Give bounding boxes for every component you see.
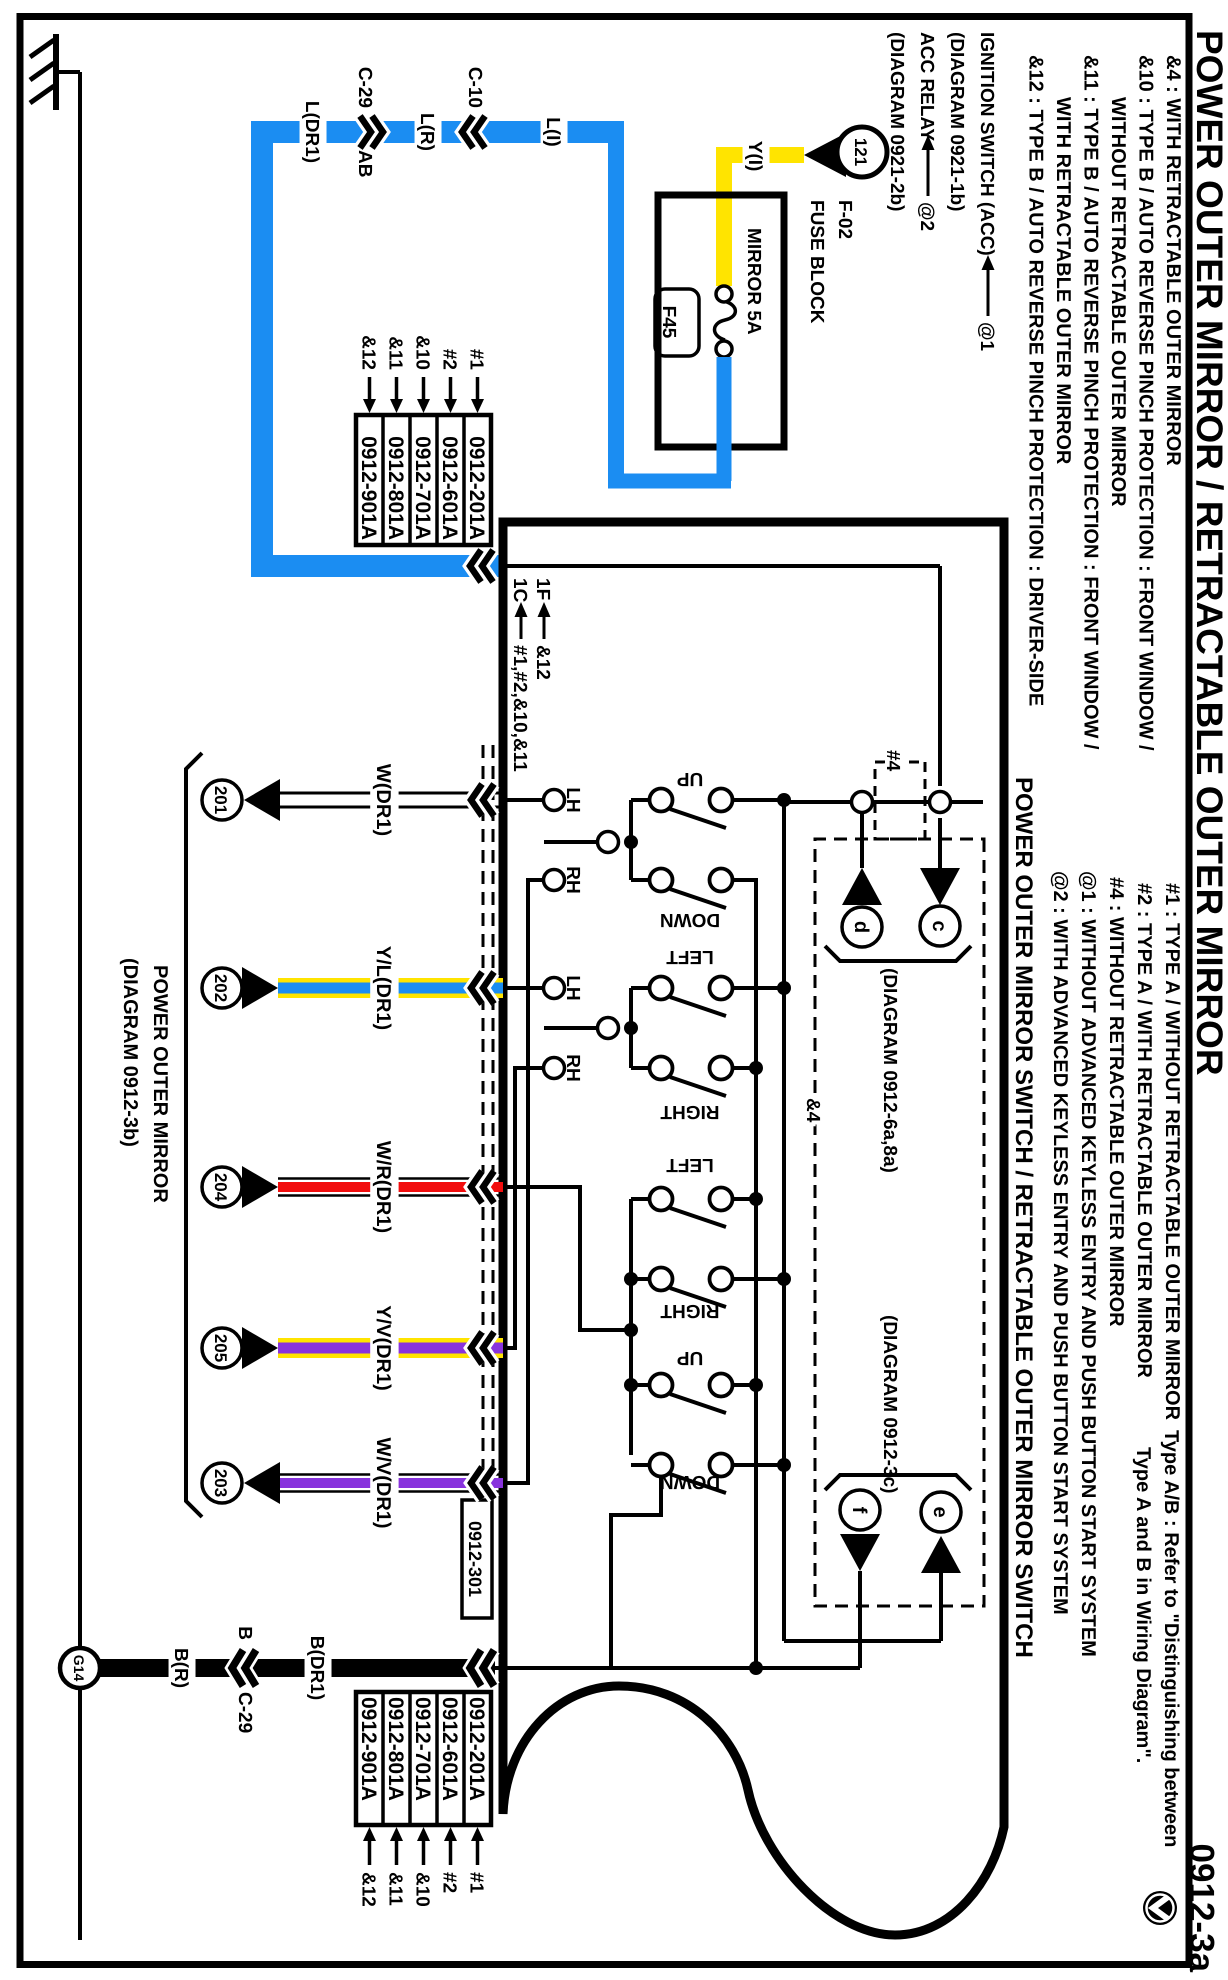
svg-text:UP: UP (676, 768, 703, 789)
svg-text:0912-601A: 0912-601A (438, 436, 461, 540)
svg-text:0912-3a: 0912-3a (1182, 1844, 1221, 1973)
svg-text:C-10: C-10 (464, 67, 485, 108)
svg-text:ACC RELAY: ACC RELAY (916, 32, 937, 141)
svg-text:&11 : TYPE B / AUTO REVERSE PI: &11 : TYPE B / AUTO REVERSE PINCH PROTEC… (1080, 55, 1102, 750)
svg-text:DOWN: DOWN (660, 909, 720, 930)
svg-text:G14: G14 (71, 1655, 87, 1682)
svg-text:&12: &12 (532, 645, 553, 680)
svg-text:(DIAGRAM 0912-3b): (DIAGRAM 0912-3b) (119, 958, 141, 1147)
svg-text:121: 121 (851, 138, 870, 166)
svg-text:RIGHT: RIGHT (660, 1300, 720, 1321)
svg-text:IGNITION SWITCH (ACC): IGNITION SWITCH (ACC) (976, 32, 997, 256)
svg-text:0912-201A: 0912-201A (465, 1697, 488, 1801)
svg-text:#4: #4 (882, 750, 903, 772)
svg-text:&12 : TYPE B / AUTO REVERSE PI: &12 : TYPE B / AUTO REVERSE PINCH PROTEC… (1025, 55, 1047, 706)
svg-text:FUSE BLOCK: FUSE BLOCK (806, 200, 827, 324)
svg-text:POWER OUTER MIRROR SWITCH / RE: POWER OUTER MIRROR SWITCH / RETRACTABLE … (1010, 777, 1037, 1658)
svg-text:L(DR1): L(DR1) (301, 101, 322, 163)
svg-text:0912-801A: 0912-801A (384, 1697, 407, 1801)
svg-text:(DIAGRAM 0912-3c): (DIAGRAM 0912-3c) (879, 1315, 900, 1493)
svg-text:@1: @1 (976, 322, 997, 352)
svg-text:W(DR1): W(DR1) (372, 764, 394, 836)
svg-text:203: 203 (211, 1469, 230, 1497)
svg-text:&11: &11 (385, 1872, 406, 1906)
svg-text:@2: @2 (916, 202, 937, 231)
svg-text:0912-801A: 0912-801A (384, 436, 407, 540)
svg-text:1F: 1F (532, 578, 553, 600)
svg-text:W/V(DR1): W/V(DR1) (372, 1437, 394, 1528)
svg-text:MIRROR 5A: MIRROR 5A (743, 228, 764, 335)
svg-text:DOWN: DOWN (660, 1471, 720, 1492)
svg-text:B(R): B(R) (170, 1648, 191, 1688)
svg-text:@1 : WITHOUT ADVANCED KEYLESS: @1 : WITHOUT ADVANCED KEYLESS ENTRY AND … (1077, 871, 1099, 1657)
svg-text:WITHOUT RETRACTABLE OUTER MIRR: WITHOUT RETRACTABLE OUTER MIRROR (1107, 97, 1129, 507)
svg-text:(DIAGRAM 0921-1b): (DIAGRAM 0921-1b) (946, 32, 967, 211)
svg-text:205: 205 (211, 1334, 230, 1362)
svg-text:Y/V(DR1): Y/V(DR1) (372, 1305, 394, 1391)
svg-text:0912-601A: 0912-601A (438, 1697, 461, 1801)
svg-text:&10 : TYPE B / AUTO REVERSE PI: &10 : TYPE B / AUTO REVERSE PINCH PROTEC… (1135, 55, 1157, 751)
svg-text:d: d (850, 921, 872, 933)
svg-text:&4 : WITH RETRACTABLE OUTER MI: &4 : WITH RETRACTABLE OUTER MIRROR (1162, 55, 1184, 466)
svg-text:L(I): L(I) (542, 117, 563, 147)
svg-text:202: 202 (211, 974, 230, 1002)
svg-text:F-02: F-02 (834, 200, 855, 239)
svg-text:#1: #1 (466, 1872, 487, 1894)
svg-text:0912-701A: 0912-701A (411, 1697, 434, 1801)
svg-text:#4 : WITHOUT RETRACTABLE OUTER: #4 : WITHOUT RETRACTABLE OUTER MIRROR (1105, 877, 1127, 1327)
svg-text:B(DR1): B(DR1) (306, 1636, 327, 1700)
svg-text:RIGHT: RIGHT (660, 1101, 720, 1122)
svg-text:POWER OUTER MIRROR / RETRACTAB: POWER OUTER MIRROR / RETRACTABLE OUTER M… (1189, 30, 1228, 1076)
svg-text:LEFT: LEFT (666, 946, 714, 967)
svg-text:204: 204 (211, 1173, 230, 1202)
svg-text:0912-701A: 0912-701A (411, 436, 434, 540)
svg-text:201: 201 (211, 786, 230, 814)
svg-text:F45: F45 (658, 306, 679, 339)
svg-text:#2: #2 (439, 1872, 460, 1893)
svg-text:0912-901A: 0912-901A (357, 1697, 380, 1801)
svg-text:&12: &12 (358, 1872, 379, 1907)
svg-text:RH: RH (562, 1054, 583, 1081)
svg-text:#2 : TYPE A / WITH RETRACTABLE: #2 : TYPE A / WITH RETRACTABLE OUTER MIR… (1133, 883, 1155, 1378)
svg-text:&11: &11 (385, 336, 406, 370)
svg-text:&10: &10 (412, 335, 433, 370)
svg-text:C-29: C-29 (354, 67, 375, 108)
svg-text:LH: LH (562, 975, 583, 1000)
svg-text:WITH RETRACTABLE OUTER MIRROR: WITH RETRACTABLE OUTER MIRROR (1052, 97, 1074, 465)
svg-text:&10: &10 (412, 1872, 433, 1907)
svg-text:LEFT: LEFT (666, 1154, 714, 1175)
svg-text:UP: UP (676, 1347, 703, 1368)
svg-text:&4: &4 (802, 1098, 823, 1123)
svg-text:0912-901A: 0912-901A (357, 436, 380, 540)
svg-text:&12: &12 (358, 335, 379, 370)
svg-text:W/R(DR1): W/R(DR1) (372, 1141, 394, 1233)
svg-text:Y/L(DR1): Y/L(DR1) (372, 946, 394, 1030)
svg-text:1C: 1C (509, 578, 530, 603)
svg-text:0912-301: 0912-301 (465, 1521, 485, 1597)
svg-text:(DIAGRAM 0912-6a,8a): (DIAGRAM 0912-6a,8a) (879, 968, 900, 1173)
svg-text:Type A/B : Refer to "Distingui: Type A/B : Refer to "Distinguishing betw… (1160, 1430, 1182, 1847)
svg-text:B: B (234, 1626, 255, 1640)
svg-text:RH: RH (562, 866, 583, 893)
svg-text:POWER OUTER MIRROR: POWER OUTER MIRROR (149, 965, 171, 1203)
svg-text:@2 : WITH ADVANCED KEYLESS ENT: @2 : WITH ADVANCED KEYLESS ENTRY AND PUS… (1049, 871, 1071, 1615)
svg-text:Type A and B in Wiring Diagram: Type A and B in Wiring Diagram". (1132, 1447, 1154, 1763)
svg-text:e: e (929, 1506, 951, 1517)
svg-text:AB: AB (354, 150, 375, 177)
svg-text:f: f (848, 1507, 870, 1514)
svg-text:c: c (928, 920, 950, 931)
svg-text:LH: LH (562, 787, 583, 812)
svg-text:#1,#2,&10,&11: #1,#2,&10,&11 (509, 645, 530, 772)
svg-text:(DIAGRAM 0921-2b): (DIAGRAM 0921-2b) (886, 32, 907, 211)
svg-text:C-29: C-29 (234, 1692, 255, 1733)
svg-text:#1: #1 (466, 349, 487, 371)
svg-text:#2: #2 (439, 349, 460, 370)
svg-text:L(R): L(R) (416, 113, 437, 151)
svg-text:0912-201A: 0912-201A (465, 436, 488, 540)
svg-text:Y(I): Y(I) (744, 141, 765, 172)
svg-text:#1 : TYPE A / WITHOUT RETRACTA: #1 : TYPE A / WITHOUT RETRACTABLE OUTER … (1161, 883, 1183, 1421)
